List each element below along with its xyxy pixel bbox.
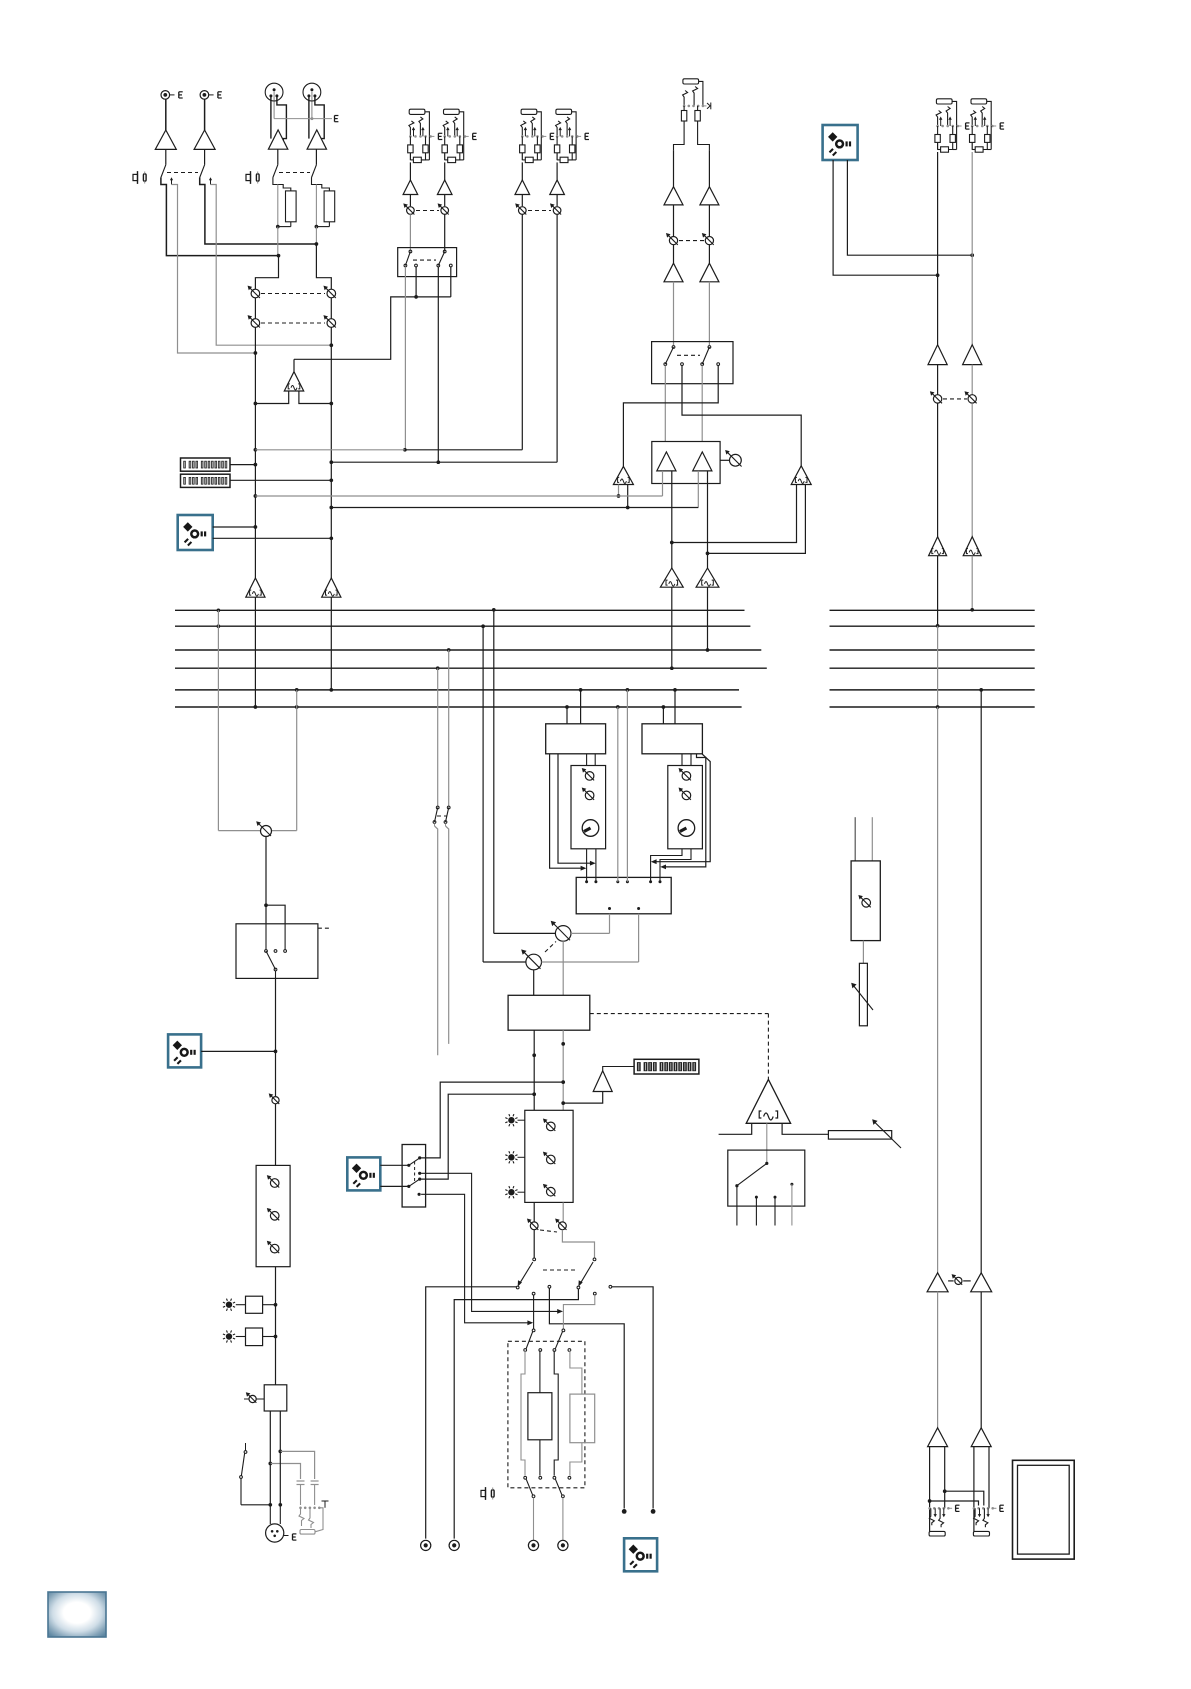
line level pot P7 [521, 195, 523, 207]
gang dashes gain pots row2 [261, 322, 325, 324]
J11 wire down [971, 152, 973, 255]
LED meter bar M2 [181, 474, 231, 487]
source select header box B5 [642, 724, 702, 754]
monitor 3-pot box B10 [525, 1110, 573, 1202]
combo input XLR J4 [308, 97, 310, 139]
ground T at phones [322, 1500, 329, 1502]
solo wire arrow onto C5 line [421, 1194, 529, 1323]
B7 outputs jog left down to router [651, 849, 682, 882]
master fader F1 [859, 963, 867, 1026]
SB2 switch 2 [708, 346, 711, 349]
footswitch contact C4 [609, 1285, 612, 1288]
monitor level pot P10 [720, 459, 729, 461]
logo [48, 1592, 106, 1637]
monitor screen [1013, 1460, 1075, 1559]
rec out switch SW6 [593, 1258, 596, 1261]
compressor box B13 [851, 861, 880, 941]
gang dashes SW3-SW4 [437, 815, 447, 817]
line preamp A4 [307, 130, 326, 149]
wire to pot P15 [275, 1051, 277, 1096]
speaker select box SB4 [728, 1150, 805, 1206]
inter-amp trim pot P13 [948, 1280, 954, 1282]
ctrl level pot P18 [483, 961, 526, 963]
bus tap wire x218 [217, 608, 221, 612]
2TK amp A10R [708, 245, 710, 263]
line level pot P6 [444, 195, 446, 207]
B5 inner pins into B7 [681, 754, 683, 766]
firewire box FW1 [178, 515, 213, 550]
mic input XLR J1 [161, 91, 170, 100]
2TK amp A10L [673, 245, 675, 263]
ch4 main wire [312, 178, 317, 185]
phones pot box B6 [571, 766, 606, 849]
B8 bottom pin dots [608, 907, 611, 910]
P14 output down [265, 837, 267, 906]
J9 output wires widen [674, 121, 685, 150]
2TK level pot P9L [673, 205, 675, 236]
U3 output legs [672, 485, 797, 543]
combo input XLR J3 [270, 97, 272, 139]
U8 output into SB4 [766, 1123, 768, 1162]
horizontal y462.2 [331, 461, 557, 463]
level pot P14 (2TK out) [218, 830, 260, 832]
ground lift switch [245, 1443, 247, 1451]
gang dashes P7-P8 [528, 210, 551, 212]
mix tap x494 (bus line1) [492, 608, 496, 612]
firewire box FW3 [168, 1034, 201, 1067]
B6 outputs down to router [586, 849, 588, 882]
mode select box B9 [508, 995, 590, 1030]
A19 to M3 wire [603, 1067, 634, 1071]
branch to phones caps [280, 1451, 314, 1479]
stereo link wires [945, 1491, 984, 1505]
SB3 output down [275, 971, 277, 979]
wire L gain to sum node [254, 353, 256, 404]
B8 top pin dots [585, 880, 588, 883]
horizontal y496 gray [255, 495, 618, 497]
gang dash P17-P18 [545, 942, 556, 953]
compressor input stubs [854, 817, 856, 861]
gain pot P1 L [251, 289, 260, 298]
mic preamp A1 [165, 99, 167, 130]
bus sum amp UL [246, 578, 265, 597]
SB4 lever [765, 1162, 768, 1165]
line amp A8 [556, 162, 558, 180]
SB4 contacts/stubs [736, 1186, 738, 1226]
ch2 tap wire (gray) [211, 185, 332, 346]
UR output onto bus [330, 597, 332, 690]
transformer T1 [528, 1393, 552, 1440]
J10 wire down [937, 152, 939, 275]
SB3 contacts and lever [265, 924, 267, 950]
meter amp A19 [593, 1071, 612, 1092]
ch3 pad resistor R1 [278, 185, 291, 191]
SB1 output gray down [404, 267, 406, 450]
wire below B2 [275, 1267, 277, 1385]
gang dashes P5-P6 [416, 210, 439, 212]
B5 feeds from bus [662, 705, 666, 709]
phones jack J15 (bottom) [299, 1507, 302, 1510]
main out XLR J14 [266, 1524, 284, 1542]
SB1 output black down [437, 267, 439, 462]
monitor amp A14 [963, 345, 982, 365]
SB2 pin1 wire gray [664, 366, 666, 385]
router box B8 [576, 877, 671, 913]
mic preamp A2 [204, 99, 206, 130]
record select box SB2 [652, 342, 733, 384]
bus sum amp UR [322, 578, 341, 597]
amp A12 [693, 452, 712, 471]
SB2 gang dashes [677, 354, 700, 356]
U2 output legs [618, 485, 620, 497]
monitor amp A13 [928, 345, 947, 365]
mode switch box SB3 [236, 924, 318, 979]
B3 outputs down [269, 1411, 271, 1464]
SB1 gang dashes [413, 259, 436, 261]
SB2 pin4 wire to left limiter [623, 366, 718, 467]
rec out L wire to RCA [426, 1287, 517, 1539]
A16 down to out amp [980, 1292, 982, 1428]
wire J11 chain to limiter [971, 403, 973, 537]
U6 output to right bus [937, 556, 939, 626]
monitor out pots P19 P20 [530, 1222, 538, 1230]
coupling caps C1 C2 [297, 1480, 305, 1482]
phones level pot P17 [494, 932, 556, 934]
U4 output to bus 4 [671, 587, 673, 668]
aux bus tap x437 (gray) [436, 666, 440, 670]
output level box B2 with 3 pots [256, 1165, 290, 1266]
inline pot P15 [272, 1097, 279, 1104]
LED meter bar M1 [181, 458, 231, 471]
B8 bottom pins to pots [609, 914, 611, 934]
ch4 pad resistor R2 [316, 185, 329, 191]
gang dashes gain pots row1 [261, 293, 325, 295]
limiter U6 [929, 537, 947, 556]
big limiter amp U8 [746, 1079, 790, 1123]
transformer T2 [570, 1394, 595, 1443]
wire ch L down to gain pots [255, 256, 278, 290]
B3 mains down to XLR out [269, 1464, 271, 1505]
wires into record select box [673, 282, 675, 345]
wire R gain to sum node [330, 345, 332, 403]
A12 legs [697, 471, 699, 508]
B12 bottom contacts [524, 1476, 527, 1479]
mix tap x483 (bus line2) [481, 624, 485, 628]
bottom levers to RCA 3/4 [526, 1479, 532, 1495]
horizontal y449.8 [255, 449, 405, 451]
mute switch SW1 ch1 [165, 149, 167, 164]
horizontal y507.5 [331, 507, 627, 509]
wires to rec switches [533, 1230, 535, 1258]
SB2 pin3 wire gray [701, 366, 703, 385]
solo feed wires from left [421, 1082, 563, 1158]
line amp A6 [444, 162, 446, 180]
gain pot P2 L [251, 319, 260, 328]
FW2 wire 2 [847, 160, 972, 255]
ch1 tap arrow [171, 180, 173, 185]
A11 legs [662, 471, 664, 496]
line preamp A3 [268, 130, 287, 149]
wires below B10 [533, 1202, 535, 1221]
FW1 wire L [213, 526, 256, 528]
firewire box FW5 [624, 1538, 657, 1571]
2TK level pot P9R [708, 205, 710, 236]
limiter amp U5 [707, 553, 709, 568]
ch2 tap arrow [210, 180, 212, 185]
FW3 wire [201, 1050, 275, 1052]
mono sum amp U1 (mic) [284, 372, 303, 391]
A19 input wire [563, 1092, 603, 1104]
B5 bypass wires with arrows [664, 754, 706, 867]
line select switch box SB1 [398, 248, 457, 277]
mute switch SW2 ch2 [204, 149, 206, 164]
2TK amp A9L [673, 150, 675, 187]
source select header box B4 [546, 724, 606, 754]
SB1 alt contacts to U1 feed [415, 267, 417, 297]
gang dashes P9 [679, 240, 704, 242]
monitor pot P12 [971, 365, 973, 395]
U7 output to right bus [971, 556, 973, 610]
wire J10 chain to limiter [937, 403, 939, 537]
SB2 switch 1 [672, 346, 675, 349]
output amp A18 [971, 1428, 991, 1447]
speaker icon at B12 [485, 1487, 487, 1500]
aux switch SW3 [436, 806, 439, 809]
line amp A5 [409, 162, 411, 180]
ch3 main wire [273, 178, 278, 185]
feedback resistor R3 [828, 1131, 891, 1140]
bus direct feeds to B8 (gray) [616, 705, 620, 709]
U8 right leg to feedback resistor [782, 1123, 828, 1134]
bus L-R and aux buses (left group) [175, 609, 745, 611]
right col 2 wire down [979, 688, 983, 692]
wire to master fader [862, 941, 864, 964]
bus lines (right group) [830, 609, 1035, 611]
U5 output to bus 3 [707, 587, 709, 650]
power amp A15 [927, 1273, 948, 1292]
main R wire down with junctions [330, 404, 332, 463]
pot P16 beside B3 [249, 1395, 256, 1402]
output driver box B3 [264, 1385, 287, 1411]
line level pot P5 [409, 195, 411, 207]
wires below B9 [533, 1030, 535, 1110]
wire ch2 post-switch [200, 178, 317, 245]
wires A pair into select box [409, 214, 411, 251]
ground line for J3/J4 [274, 118, 332, 120]
aux switch SW4 [447, 806, 450, 809]
B12 top contacts [524, 1349, 527, 1352]
rec out R wire to RCA [454, 1289, 578, 1539]
firewire box FW4 [347, 1157, 380, 1190]
main L wire down with junctions [254, 404, 256, 450]
FW4 wires to solo box [380, 1164, 409, 1166]
pot outputs into mode box [562, 941, 564, 995]
right col 1 wire down [937, 626, 939, 707]
gang dashes SW1-SW2 [167, 172, 198, 174]
gain pot P1 R [327, 289, 336, 298]
mute switch ch4 [315, 149, 317, 164]
2TK amp A9R [708, 150, 710, 187]
wire ch R down to gain pots [316, 244, 331, 289]
LED indicator box D2 [246, 1328, 263, 1346]
SB3 dashed stub [318, 927, 332, 929]
FW2 wire 1 [833, 160, 938, 275]
main out jack J13 [973, 1447, 975, 1532]
meter M3 [634, 1059, 699, 1074]
SB1 switch 1 [409, 250, 412, 253]
aux bus tap x448 (gray) [447, 648, 451, 652]
SB2 pin2 wire to right limiter [682, 366, 801, 466]
FW1 wire R [213, 537, 332, 539]
suns beside B10 [508, 1117, 514, 1123]
solo wire arrow onto C6 line [421, 1173, 559, 1311]
ctrl pot box B7 [668, 766, 703, 849]
SB1 contacts [415, 264, 418, 267]
B4 bypass wires with arrows [550, 754, 583, 868]
U8 dashed sidechain [767, 1014, 769, 1080]
headphone dashed box B12 [508, 1341, 585, 1488]
limiter amp U3 (right) [791, 466, 811, 485]
wire ch1 post-switch [161, 178, 279, 256]
wires B pair down [521, 214, 523, 449]
phones feed contact C6 [593, 1292, 596, 1295]
B4 feeds from bus [565, 705, 569, 709]
U8 left leg [719, 1123, 752, 1134]
ctrl-room jack J11 [971, 99, 987, 104]
line input jack J6 [444, 109, 460, 114]
UL output onto bus [254, 597, 256, 707]
SB1 switch 2 [443, 250, 446, 253]
U1 output legs [255, 391, 288, 404]
J9 resistors [683, 106, 685, 111]
gain pot P2 R [327, 319, 336, 328]
SB2 contacts [681, 363, 684, 366]
branch to SB3 [266, 905, 285, 924]
U1 input wire from line-in select [294, 297, 451, 359]
line amp A7 [521, 162, 523, 180]
meter M1 wire [230, 464, 255, 466]
ctrl-room jack J10 [936, 99, 952, 104]
speaker icon (mute) left [137, 171, 139, 184]
switch levers above B12 [532, 1329, 535, 1332]
stereo jack J9 (2TK) [683, 79, 699, 84]
line level pot P8 [556, 195, 558, 207]
main out jack J12 [929, 1447, 931, 1532]
speaker icon (mute) ch3/4 [250, 171, 252, 184]
line input jack J5 [409, 109, 425, 114]
limiter U7 [963, 537, 981, 556]
amp A11 [657, 452, 676, 471]
gang dashes ch3-ch4 [279, 172, 310, 174]
meter M2 wire [230, 479, 331, 481]
mute switch ch3 [277, 149, 279, 164]
limiter amp U2 (left) [613, 466, 633, 484]
line input jack J7 [521, 109, 537, 114]
mic input XLR J2 [200, 91, 209, 100]
gang dashes P11-P12 [943, 398, 967, 400]
B12 internal wires [521, 1351, 525, 1476]
rec out switch SW5 [533, 1258, 536, 1261]
B9 dashed sidechain to compressor [590, 1013, 769, 1015]
monitor pot P11 [937, 365, 939, 395]
RCA out jacks [421, 1540, 431, 1550]
B4 inner pins into B6 [586, 754, 588, 766]
footswitch contact C2 [548, 1285, 551, 1288]
A15 down to out amp [937, 1292, 939, 1428]
LED indicator box D1 [246, 1296, 263, 1313]
bus tap wire x296 [295, 688, 299, 692]
aux wires below switches [434, 823, 436, 826]
gang dash SW5-SW6 [543, 1269, 578, 1271]
solo switch box B11 [402, 1145, 426, 1208]
output amp A17 [928, 1428, 948, 1447]
monitor amp box B1 [652, 442, 720, 484]
firewire box FW2 [823, 125, 858, 160]
phones feed contact C5 [532, 1292, 535, 1295]
power amp A16 [971, 1273, 992, 1292]
line input jack J8 [556, 109, 572, 114]
limiter amp U4 [671, 543, 673, 569]
ch1 tap wire (gray) [172, 185, 256, 354]
